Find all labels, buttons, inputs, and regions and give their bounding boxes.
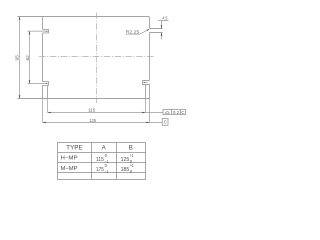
svg-text:185: 185 — [121, 167, 130, 173]
svg-text:A: A — [102, 144, 107, 151]
svg-text:+1: +1 — [130, 163, 134, 168]
svg-text:125: 125 — [121, 157, 130, 163]
svg-text:0: 0 — [105, 163, 108, 168]
svg-text:175: 175 — [96, 167, 104, 173]
svg-text:−1: −1 — [105, 169, 109, 174]
svg-text:95: 95 — [15, 55, 21, 61]
svg-text:0: 0 — [105, 153, 108, 158]
svg-text:125: 125 — [89, 118, 97, 123]
svg-text:B: B — [129, 144, 133, 151]
svg-text:C: C — [181, 110, 184, 115]
svg-text:62: 62 — [25, 55, 31, 61]
svg-text:115: 115 — [88, 108, 96, 113]
svg-text:H−MP: H−MP — [61, 156, 78, 162]
svg-text:0.2: 0.2 — [173, 110, 180, 115]
svg-text:C: C — [164, 120, 167, 125]
svg-text:TYPE: TYPE — [66, 144, 83, 151]
svg-text:+1: +1 — [130, 153, 134, 158]
svg-text:M−MP: M−MP — [61, 166, 78, 172]
svg-text:R2.25: R2.25 — [126, 30, 140, 35]
svg-text:115: 115 — [96, 157, 104, 163]
svg-text:4.5: 4.5 — [162, 16, 168, 21]
svg-text:0: 0 — [130, 169, 133, 174]
